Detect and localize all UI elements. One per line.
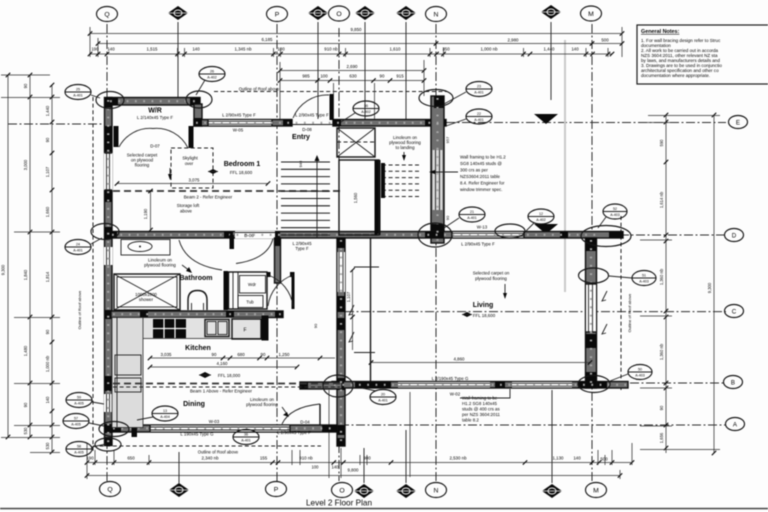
entry door arc	[293, 95, 329, 118]
svg-text:Storage loft: Storage loft	[177, 203, 200, 208]
wall cap ellipse W/R right	[186, 91, 212, 108]
grid bubble Q bottom	[100, 482, 121, 497]
svg-text:58: 58	[77, 445, 81, 449]
marker line bottom 3	[405, 430, 407, 483]
closet east wall	[292, 272, 295, 309]
grid line Q	[106, 24, 108, 481]
stairwell void right wall	[375, 160, 381, 235]
svg-text:90: 90	[23, 402, 28, 407]
callout 2x/A-402 entry	[341, 101, 379, 122]
svg-text:90: 90	[445, 215, 450, 220]
marker line top 5	[550, 22, 552, 100]
svg-text:W-13: W-13	[477, 225, 488, 230]
svg-text:A-401: A-401	[378, 399, 388, 403]
linen closet	[229, 272, 268, 309]
svg-text:90: 90	[313, 323, 318, 328]
left wall window 2	[104, 247, 113, 265]
svg-text:500: 500	[600, 457, 608, 462]
svg-text:Tub: Tub	[246, 300, 254, 305]
svg-text:140: 140	[192, 47, 200, 52]
upper tread wall ticks	[381, 163, 385, 198]
wall stair/kitchen east	[337, 238, 345, 446]
marker line top 1	[177, 22, 179, 97]
svg-text:4,860: 4,860	[454, 357, 466, 362]
FFL marker living	[462, 312, 472, 317]
callout 24/A-401 left grid D	[65, 238, 102, 255]
svg-text:1,360 nb: 1,360 nb	[659, 343, 664, 360]
black post dining	[132, 411, 138, 437]
marker diamond bottom 3	[396, 484, 416, 498]
svg-text:957: 957	[445, 136, 450, 143]
callout 22/A-401 right	[446, 109, 492, 126]
left dimension chain 2	[29, 75, 31, 437]
svg-text:630: 630	[349, 74, 357, 79]
svg-text:2,530 nb: 2,530 nb	[449, 456, 467, 461]
overall dimension 9850	[90, 33, 622, 35]
svg-text:6,185: 6,185	[262, 37, 274, 42]
callout 57/A-405 left 2	[63, 414, 104, 429]
window W-13 in grid D wall	[452, 232, 524, 239]
window arrows living east	[602, 291, 607, 301]
svg-text:over: over	[185, 161, 194, 166]
wall dining east stub	[300, 382, 342, 389]
svg-text:530: 530	[23, 427, 28, 435]
window arrows kitchen east	[349, 305, 354, 315]
svg-text:140: 140	[107, 47, 115, 52]
svg-text:1,840: 1,840	[23, 269, 28, 280]
kitchen bench top	[112, 318, 265, 339]
wall W/R right	[194, 104, 202, 126]
svg-text:A-401: A-401	[241, 439, 251, 443]
wall bathroom/kitchen divider	[111, 311, 283, 318]
wall cap ellipse entry bottom	[418, 223, 452, 247]
door D-06 opening in grid D wall	[235, 231, 275, 239]
svg-text:90: 90	[380, 74, 385, 79]
wall living east	[586, 238, 597, 388]
grid line A	[308, 424, 726, 426]
door D-06 jamb	[230, 235, 235, 249]
svg-text:90: 90	[23, 83, 28, 88]
left wall window 1	[104, 153, 113, 190]
callout 21/A-401	[444, 207, 485, 228]
svg-text:D: D	[732, 232, 737, 239]
callout 36/A-401 bottom dining	[233, 430, 259, 445]
svg-text:NZS3604:2011 table: NZS3604:2011 table	[460, 174, 501, 179]
entry door leaf	[330, 94, 334, 120]
grid line E	[446, 122, 726, 124]
grid line B	[630, 382, 726, 384]
linoleum leader stair	[403, 152, 405, 158]
living tick 2	[354, 352, 375, 354]
marker diamond bottom 2	[354, 484, 374, 498]
svg-text:190: 190	[91, 47, 99, 52]
svg-text:1,440: 1,440	[45, 105, 50, 116]
svg-text:1,660: 1,660	[45, 206, 50, 217]
skylight leader arrow	[169, 168, 171, 177]
wall living south grid B	[332, 382, 628, 389]
marker line bottom 2	[363, 448, 365, 483]
left witness lines	[1, 74, 50, 76]
callout 20/A-401	[362, 388, 396, 405]
stair direction line	[316, 158, 318, 238]
svg-text:Outline of Roof above: Outline of Roof above	[239, 87, 280, 92]
callout 26/A-402 top	[196, 67, 225, 96]
callout 23/A-401 right top	[444, 82, 492, 105]
svg-text:915: 915	[396, 74, 404, 79]
svg-text:N: N	[434, 487, 439, 494]
marker line top 3	[364, 22, 366, 121]
svg-text:Beam 1 Above - Refer Engineer: Beam 1 Above - Refer Engineer	[190, 389, 253, 394]
grid bubble C right	[725, 305, 744, 318]
svg-text:A-401: A-401	[73, 94, 83, 98]
svg-text:FFL 18,600: FFL 18,600	[473, 313, 496, 318]
svg-text:24: 24	[76, 243, 80, 247]
callout 50/A-403 living SE	[610, 365, 652, 382]
wall cap ellipse left wall bottom	[95, 438, 121, 451]
svg-text:985: 985	[302, 74, 310, 79]
window W-05 in top wall	[208, 120, 272, 127]
svg-text:L 2/90x45 Type F: L 2/90x45 Type F	[222, 113, 256, 118]
svg-text:plywood flooring: plywood flooring	[246, 402, 278, 407]
svg-text:Type F: Type F	[295, 246, 309, 251]
marker diamond top 3	[355, 6, 375, 20]
svg-text:F: F	[243, 328, 246, 334]
wall W/R top black caps	[108, 98, 118, 106]
svg-text:4,160: 4,160	[217, 361, 229, 366]
svg-text:13: 13	[163, 409, 167, 413]
beam 1 dashed line	[113, 383, 340, 385]
svg-text:table 8.2: table 8.2	[462, 418, 479, 423]
svg-text:W-05: W-05	[233, 128, 244, 133]
marker diamond bottom 4	[542, 484, 562, 498]
svg-text:General Notes:: General Notes:	[641, 29, 680, 35]
W/R door jamb right	[189, 126, 194, 148]
bedroom vertical dim	[150, 191, 152, 230]
svg-text:1,614 nb: 1,614 nb	[659, 191, 664, 208]
stair landing hatch box	[337, 128, 375, 157]
svg-text:Selected carpet on: Selected carpet on	[473, 271, 510, 276]
svg-text:A-404: A-404	[160, 415, 170, 419]
marker line top 4	[405, 22, 407, 121]
svg-text:2,690: 2,690	[347, 64, 359, 69]
svg-text:140: 140	[332, 465, 340, 470]
FFL marker bedroom	[208, 169, 218, 174]
marker diamond top 5	[541, 5, 561, 19]
beam 2 dashed line	[113, 190, 340, 192]
roof outline left	[92, 97, 94, 452]
svg-text:1,130: 1,130	[553, 456, 565, 461]
wall framing note leader	[432, 171, 458, 173]
svg-text:A-401: A-401	[73, 249, 83, 253]
grid bubble O top	[329, 6, 350, 21]
wall framing note lower	[462, 396, 501, 423]
dimension row 6185/2980/500	[98, 43, 622, 45]
svg-text:57: 57	[74, 417, 78, 421]
svg-text:A-403: A-403	[639, 280, 649, 284]
svg-text:1,440: 1,440	[544, 47, 556, 52]
svg-text:D-07: D-07	[150, 144, 160, 149]
svg-text:A-401: A-401	[467, 216, 477, 220]
svg-text:L 2/90x45 Type F: L 2/90x45 Type F	[295, 113, 329, 118]
svg-text:100: 100	[312, 465, 320, 470]
wall bathroom east stub	[275, 238, 281, 283]
callout 25/A-401 top left	[65, 85, 100, 100]
svg-text:A-401: A-401	[474, 118, 484, 122]
svg-text:36: 36	[244, 433, 248, 437]
grid line M	[591, 24, 593, 481]
dimension row 985/100/630/90/915	[280, 80, 424, 82]
svg-text:per NZS 3604:2011: per NZS 3604:2011	[462, 412, 501, 417]
kitchen end panel	[262, 316, 269, 341]
left wall black posts	[105, 98, 113, 108]
svg-text:140: 140	[571, 47, 579, 52]
svg-text:B: B	[731, 379, 735, 386]
grid bubble N top	[426, 7, 447, 22]
living tick 1	[354, 266, 379, 268]
grid bubble P bottom	[266, 482, 287, 497]
dimension row segments	[90, 53, 612, 55]
callout 13/A-404 dining	[137, 406, 178, 421]
svg-text:A-405: A-405	[71, 423, 81, 427]
callout 51/A-403 living east	[609, 271, 656, 286]
svg-text:8.4. Refer Engineer for: 8.4. Refer Engineer for	[460, 181, 505, 186]
svg-text:A-401: A-401	[474, 91, 484, 95]
svg-text:shower: shower	[139, 297, 154, 302]
living east wall window	[586, 284, 597, 332]
svg-text:1,814: 1,814	[45, 271, 50, 282]
svg-text:22: 22	[477, 112, 481, 116]
roof outline top	[214, 91, 447, 93]
svg-text:910 nb: 910 nb	[324, 47, 338, 52]
wall dining south	[111, 425, 337, 432]
svg-text:L 2/90x45 Type F: L 2/90x45 Type F	[277, 430, 311, 435]
svg-text:M: M	[593, 487, 599, 494]
svg-text:3,000: 3,000	[23, 159, 28, 170]
right dimension chain	[665, 115, 667, 453]
svg-text:100: 100	[320, 74, 328, 79]
bathroom hall door arc	[179, 240, 222, 270]
grid line C	[345, 311, 726, 313]
wall stud texture overlays	[110, 101, 626, 428]
linoleum leader bathroom	[182, 265, 190, 271]
window W-02 in living south wall	[398, 382, 490, 388]
svg-text:20: 20	[381, 393, 385, 397]
svg-text:90: 90	[659, 405, 664, 410]
svg-text:910 nb: 910 nb	[299, 456, 313, 461]
svg-text:above: above	[180, 209, 193, 214]
svg-text:25: 25	[76, 88, 80, 92]
grid bubble B right	[724, 376, 743, 389]
roof outline right	[620, 216, 622, 390]
wall grid D main	[107, 232, 623, 239]
svg-text:to landing: to landing	[395, 145, 415, 150]
svg-text:12: 12	[539, 212, 543, 216]
svg-text:A-402: A-402	[207, 76, 217, 80]
svg-text:Entry: Entry	[292, 134, 310, 141]
closet double doors	[267, 272, 271, 277]
dining door arc	[282, 404, 320, 424]
wall top main right of entry door	[333, 120, 446, 127]
left overall dimension 9300	[7, 75, 9, 437]
W/R door jamb left	[114, 126, 119, 147]
marker diamond top 1	[168, 6, 188, 20]
svg-text:190: 190	[86, 456, 94, 461]
svg-text:L 2/190x45 Type G: L 2/190x45 Type G	[432, 376, 469, 381]
wall framing note upper	[460, 155, 506, 193]
svg-text:1,190: 1,190	[143, 208, 148, 219]
svg-text:Kitchen: Kitchen	[185, 345, 211, 352]
svg-text:1,560: 1,560	[353, 192, 358, 203]
toilet	[188, 291, 207, 311]
wall cap ellipse living NE	[581, 226, 631, 247]
svg-text:140: 140	[45, 396, 50, 404]
svg-text:A-402: A-402	[361, 110, 371, 114]
wall cap ellipse dining SW	[99, 422, 129, 437]
svg-text:L 190x45 Type G: L 190x45 Type G	[180, 432, 214, 437]
svg-text:Living: Living	[473, 302, 494, 309]
svg-text:500: 500	[601, 38, 609, 43]
svg-text:1,000 nb: 1,000 nb	[45, 355, 50, 372]
marker diamond top 2	[308, 6, 328, 20]
svg-text:1,250: 1,250	[279, 352, 291, 357]
door D-06 arc	[236, 239, 273, 264]
svg-text:L 2/140x45 Type F: L 2/140x45 Type F	[137, 115, 173, 120]
grid bubble E right	[729, 116, 748, 129]
svg-text:1,000 nb: 1,000 nb	[480, 47, 498, 52]
svg-text:D-08: D-08	[302, 127, 312, 132]
wall left exterior	[105, 98, 113, 446]
svg-text:Level 2 Floor Plan: Level 2 Floor Plan	[306, 499, 372, 508]
grid bubble A right	[726, 418, 745, 431]
kitchen wall oven box	[115, 355, 141, 375]
svg-text:90: 90	[45, 137, 50, 142]
svg-text:Wall framing to be H1.2: Wall framing to be H1.2	[460, 155, 506, 160]
svg-text:36: 36	[364, 104, 368, 108]
FFL marker kitchen	[199, 372, 211, 378]
window W-03 in dining south wall	[150, 425, 290, 432]
svg-text:window trimmer spec.: window trimmer spec.	[460, 187, 502, 192]
living dim 4860	[371, 362, 590, 364]
svg-text:3,075: 3,075	[189, 178, 201, 183]
svg-text:680: 680	[237, 352, 245, 357]
svg-text:SG8 140x45 studs @: SG8 140x45 studs @	[460, 161, 502, 166]
left dimension chain 3	[51, 85, 53, 452]
shower	[114, 274, 180, 310]
svg-text:C: C	[732, 308, 737, 315]
svg-text:W-02: W-02	[450, 392, 461, 397]
svg-text:documentation where appropriat: documentation where appropriate.	[641, 73, 710, 78]
svg-text:155: 155	[260, 456, 268, 461]
grid line O	[338, 28, 340, 481]
svg-text:A-403: A-403	[610, 213, 620, 217]
bottom dimension row segments	[87, 462, 632, 464]
svg-text:Bedroom 1: Bedroom 1	[224, 161, 261, 168]
svg-text:590: 590	[659, 139, 664, 147]
svg-text:N: N	[434, 11, 439, 18]
section triangle near grid D	[534, 224, 558, 234]
svg-text:51: 51	[642, 274, 646, 278]
svg-text:D-06: D-06	[244, 233, 254, 238]
wall cap ellipse W/R left	[96, 92, 124, 109]
svg-text:21: 21	[470, 210, 474, 214]
svg-text:1,656: 1,656	[659, 432, 664, 443]
skylight dashed rect	[171, 148, 213, 188]
svg-text:946: 946	[298, 160, 303, 167]
grid line N	[435, 24, 437, 481]
wall cap ellipse left grid D	[91, 224, 119, 240]
hob	[153, 319, 186, 338]
svg-text:Bathroom: Bathroom	[179, 275, 212, 282]
scan fold line	[564, 40, 566, 292]
marker line bottom 1	[178, 452, 180, 483]
svg-text:D-04: D-04	[300, 420, 310, 425]
svg-text:Outline of Roof above: Outline of Roof above	[198, 450, 239, 455]
svg-text:140: 140	[573, 456, 581, 461]
svg-text:P: P	[275, 11, 280, 18]
grid bubble P top	[267, 7, 288, 22]
marker line bottom 4	[551, 390, 553, 483]
dimension 2690 entry	[280, 70, 424, 72]
svg-text:1,515: 1,515	[147, 47, 159, 52]
grid bubble O bottom	[332, 483, 353, 498]
fridge	[232, 319, 261, 339]
entry east wall window	[433, 150, 443, 210]
kitchen internal dims	[150, 357, 335, 359]
svg-text:90: 90	[212, 352, 217, 357]
svg-text:26: 26	[210, 70, 214, 74]
svg-text:plywood flooring: plywood flooring	[475, 276, 507, 281]
svg-text:Wdr: Wdr	[248, 282, 257, 287]
wall entry east	[431, 96, 444, 243]
callout 59/A-405 left 1	[66, 393, 104, 408]
wall cap ellipse grid D mid	[495, 224, 525, 238]
svg-text:W-03: W-03	[209, 419, 220, 424]
svg-text:Beam 2 - Refer Engineer: Beam 2 - Refer Engineer	[184, 195, 233, 200]
grid line E left margin	[8, 123, 104, 125]
svg-text:A-405: A-405	[74, 451, 84, 455]
grid bubble M top	[581, 6, 602, 21]
svg-text:1,610: 1,610	[390, 47, 402, 52]
svg-text:M: M	[588, 11, 594, 18]
sheet border line	[0, 508, 768, 510]
svg-text:9,800: 9,800	[348, 468, 360, 473]
grid bubble N bottom	[426, 483, 447, 498]
svg-text:59: 59	[77, 396, 81, 400]
svg-text:1,107: 1,107	[346, 291, 351, 302]
wall W/R top	[108, 98, 200, 106]
svg-text:O: O	[339, 487, 344, 494]
kitchen tall cupboard column	[112, 318, 143, 428]
callout 58/A-405 left 3	[66, 442, 106, 457]
svg-text:530: 530	[45, 442, 50, 450]
svg-text:Skylight: Skylight	[182, 156, 198, 161]
door D-07 double arcs	[119, 128, 153, 147]
bottom witness lines	[86, 443, 88, 479]
wall top main	[194, 120, 292, 127]
svg-text:1,480: 1,480	[23, 345, 28, 356]
carpet leader arrow living	[504, 284, 506, 296]
svg-text:2,980: 2,980	[508, 38, 520, 43]
svg-text:FFL 18,000: FFL 18,000	[218, 373, 241, 378]
lower note leader	[460, 389, 510, 398]
right overall dimension 9300	[713, 115, 715, 453]
svg-text:E: E	[736, 119, 740, 126]
wall cap ellipse living SW	[323, 375, 353, 397]
wall cap ellipse living SE	[578, 376, 610, 393]
svg-text:50: 50	[638, 368, 642, 372]
svg-text:A-405: A-405	[74, 402, 84, 406]
linoleum leader dining	[282, 407, 287, 414]
